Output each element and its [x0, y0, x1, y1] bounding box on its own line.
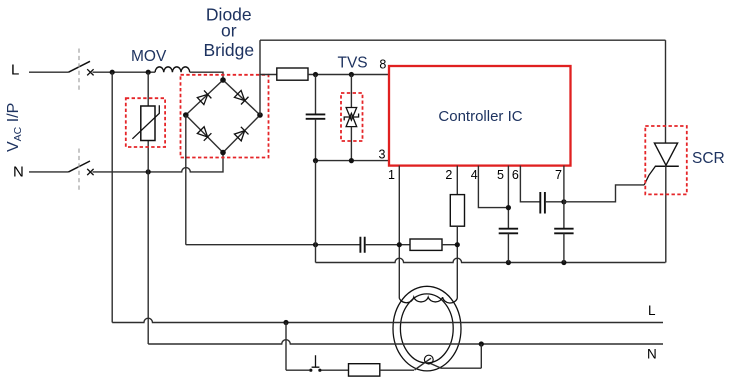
node bridge top dot [220, 77, 226, 83]
wire bottom branch vertical from L-out [285, 323, 287, 371]
thyristor SCR gate diagonal [644, 166, 655, 185]
switch SW1 dashed actuator line [78, 49, 80, 93]
thyristor SCR triangle [654, 143, 677, 165]
capacitor C4 plates [554, 229, 573, 234]
bridge rectifier diamond wires [186, 80, 260, 153]
switch SW1 blade (L line) [69, 61, 91, 72]
node dot N-out / sense return [479, 341, 484, 346]
TVS diode top lead [350, 75, 352, 108]
TVS bidirectional diode symbol [344, 108, 358, 127]
svg-text:L: L [11, 62, 19, 79]
wire gate run to SCR [564, 185, 644, 202]
svg-text:Controller IC: Controller IC [438, 108, 522, 125]
wire N pass-through vertical (x=148) [147, 172, 149, 344]
node junction dot L/line-down [110, 70, 115, 75]
resistor R1 body [277, 68, 308, 80]
node dot pin7/gate wire [561, 199, 566, 204]
wire pin 4 L-bend to pin5 node [478, 166, 508, 208]
MOV red dashed enclosure [126, 98, 165, 147]
svg-text:8: 8 [379, 58, 386, 72]
push switch SW3 actuator [312, 355, 320, 367]
capacitor C3 plates [499, 229, 518, 234]
switch SW2 contact x-mark [87, 169, 93, 175]
resistor R3 body (low row) [410, 239, 442, 250]
svg-text:L: L [648, 303, 656, 318]
wire sense return up to N output [480, 344, 482, 368]
svg-text:TVS: TVS [338, 55, 368, 72]
node bridge right dot [257, 112, 263, 118]
svg-text:5: 5 [497, 168, 504, 182]
wire switch to R4 [322, 369, 349, 371]
varistor MOV body [141, 106, 155, 141]
node dot R1/C1 [313, 72, 318, 77]
node junction dot N/MOV bottom [146, 169, 151, 174]
wire low row C2 to R3 [365, 244, 410, 246]
diode D2 (top-right arm) [234, 90, 248, 105]
node dot rail/C4 [561, 260, 566, 265]
node dot L-out / bottom branch [283, 320, 288, 325]
transformer T1 inner ring [400, 294, 453, 363]
wire C1-branch vertical to ground rail [315, 161, 317, 263]
node dot TVS top [349, 72, 354, 77]
svg-text:SCR: SCR [692, 150, 725, 167]
diode D4 (bottom-right arm) [234, 127, 248, 141]
node junction dot L/MOV tap [146, 70, 151, 75]
bridge red dashed enclosure [181, 75, 269, 158]
wire L output from pass-through with hop over N vertical [112, 318, 663, 322]
wire R1 to IC pin 8 [308, 74, 389, 76]
diode D3 (bottom-left arm) [197, 126, 211, 140]
svg-text:6: 6 [512, 168, 519, 182]
inductor L1 [155, 67, 190, 72]
resistor R4 body [349, 364, 380, 376]
node bridge bottom dot [220, 150, 226, 156]
svg-text:N: N [13, 163, 24, 180]
capacitor C1 top lead [315, 75, 317, 115]
SCR red dashed enclosure [645, 126, 687, 194]
push switch SW3 contact dots [309, 369, 312, 372]
capacitor C2 plates (low row) [360, 237, 364, 253]
resistor R2 (pin 2) body [450, 195, 464, 227]
wire MOV vertical L-to-N [147, 72, 149, 172]
svg-text:4: 4 [471, 168, 478, 182]
wire N input left segment [29, 171, 69, 173]
capacitor C1 plates [306, 114, 326, 118]
node dot low row / C1 branch [313, 242, 318, 247]
wire L pass-through vertical (x=112) [111, 72, 113, 322]
capacitor C5 plates (series) [540, 192, 545, 214]
svg-text:VAC I/P: VAC I/P [5, 103, 24, 152]
svg-text:N: N [647, 347, 657, 362]
wire pin-3 rail [316, 160, 390, 162]
TVS diode bottom lead [350, 127, 352, 161]
switch SW2 dashed actuator line [78, 149, 80, 193]
node dot TVS bottom [349, 158, 354, 163]
wire inductor to bridge top [190, 72, 223, 80]
wire bottom branch to push switch [286, 369, 309, 371]
wire top rail to SCR anode [260, 39, 666, 41]
thyristor SCR cathode bar [655, 165, 679, 167]
svg-text:2: 2 [445, 168, 452, 182]
label Diode or Bridge [204, 5, 255, 61]
capacitor C3 bottom lead [507, 233, 509, 262]
wire low row (left part) [186, 244, 360, 246]
switch SW1 contact x-mark [87, 69, 93, 75]
node dot pin4/pin5 [506, 205, 511, 210]
wire L input right segment [93, 71, 156, 73]
node dot low row / pin1 [397, 242, 402, 247]
transformer T1 secondary winding scallops [399, 297, 457, 303]
svg-text:or: or [221, 21, 237, 41]
wire bridge minus (left node) down to low row [185, 115, 187, 245]
wire pin 7 down [563, 166, 565, 229]
wire ground rail with hops over transformer leads [316, 258, 666, 262]
wire pin 5 down [507, 166, 509, 229]
varistor MOV diagonal strike [132, 105, 159, 139]
wire pin 2 lower segment to transformer winding [456, 226, 458, 298]
wire pin 6 bend to C5 [520, 166, 540, 202]
node dot C1 bottom [313, 158, 318, 163]
svg-text:1: 1 [388, 168, 395, 182]
TVS red dashed enclosure [341, 93, 363, 141]
diode D1 (top-left arm) [197, 90, 211, 105]
op-amp U1 Controller IC box [389, 66, 571, 166]
capacitor C4 bottom lead [563, 233, 565, 262]
wire single-turn twist through toroid [415, 358, 432, 370]
wire L input left segment [29, 71, 69, 73]
wire R4 to toroid twist [380, 369, 414, 371]
node bridge left dot [183, 112, 189, 118]
wire C5 to pin7 node [545, 201, 564, 203]
svg-text:7: 7 [555, 168, 562, 182]
switch SW2 blade (N line) [69, 161, 91, 172]
svg-text:Bridge: Bridge [204, 40, 255, 60]
wire bridge right node up to top rail [259, 40, 261, 115]
thyristor SCR anode lead [665, 40, 667, 143]
wire pin 1 down to transformer winding [398, 166, 400, 299]
wire right node to resistor R1 [260, 74, 277, 76]
wire pin 2 upper segment [456, 166, 458, 195]
svg-text:3: 3 [379, 148, 386, 162]
node dot low row / pin2 [455, 242, 460, 247]
label VAC I/P (rotated) [5, 103, 24, 152]
capacitor C1 bottom lead [315, 119, 317, 161]
svg-text:MOV: MOV [131, 48, 167, 65]
thyristor SCR cathode lead to rail [665, 166, 667, 262]
wire N input right segment with hop over bridge-minus line [93, 153, 224, 172]
node dot rail/C3 [506, 260, 511, 265]
wire low row R3 to pin2 node [442, 244, 457, 246]
wire N output from pass-through with hop over bottom branch [148, 340, 663, 344]
transformer T1 outer ring [393, 286, 461, 371]
